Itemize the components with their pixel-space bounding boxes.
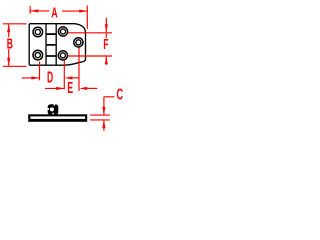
screw hole left-bottom outer bbox=[33, 50, 43, 60]
dimension C upper shaft bbox=[103, 97, 105, 115]
dimension E arrowhead left bbox=[56, 87, 64, 90]
svg-text:F: F bbox=[103, 36, 108, 53]
dimension B extension line top bbox=[3, 23, 27, 25]
screw hole left-bottom inner bbox=[35, 53, 40, 58]
svg-text:C: C bbox=[117, 86, 124, 103]
screw hole left-top outer bbox=[33, 27, 43, 37]
side view knuckle pin hole bbox=[50, 107, 54, 111]
side view knuckle top notch bbox=[54, 104, 56, 106]
dimension F extension line top bbox=[68, 32, 112, 34]
dimension A line right segment bbox=[62, 10, 87, 12]
side view knuckle left notch bbox=[47, 108, 49, 110]
dimension D right shaft bbox=[72, 77, 79, 79]
dimension C leader horizontal bbox=[104, 96, 114, 98]
dimension F extension line bottom bbox=[68, 55, 112, 57]
dimension D line left shaft bbox=[22, 77, 40, 79]
dimension F upper shaft bbox=[105, 18, 107, 32]
svg-text:E: E bbox=[67, 80, 73, 97]
barrel right edge line bbox=[55, 24, 57, 65]
screw hole right-bottom outer bbox=[58, 51, 67, 60]
dimension C extension line bottom bbox=[90, 119, 110, 121]
svg-text:D: D bbox=[47, 70, 53, 87]
dimension C extension line top bbox=[90, 114, 110, 116]
side view bar inner white split bbox=[30, 116, 85, 119]
dimension B line upper segment bbox=[8, 24, 10, 37]
knuckle joint line 2 bbox=[46, 44, 56, 46]
dimension D arrowhead right bbox=[64, 76, 72, 79]
knuckle joint line 3 bbox=[46, 55, 56, 57]
dimension C lower shaft bbox=[103, 120, 105, 131]
dimension F arrowhead bottom bbox=[105, 56, 108, 64]
screw hole right-top inner bbox=[60, 29, 65, 34]
svg-text:B: B bbox=[7, 36, 13, 53]
dimension D arrowhead left bbox=[31, 76, 39, 79]
side view knuckle body bbox=[48, 104, 59, 115]
dimension B arrowhead bottom bbox=[7, 58, 10, 66]
dimension B line lower segment bbox=[8, 49, 10, 66]
side view knuckle bottom notch bbox=[52, 113, 54, 115]
dimension A extension line left bbox=[29, 6, 31, 14]
dimension D extension line left (below left hole) bbox=[39, 62, 41, 81]
side view leaf bar bbox=[28, 114, 87, 122]
hinge right leaf outline (plan view) bbox=[46, 24, 86, 65]
dimension C arrowhead top bbox=[102, 107, 105, 115]
dimension A arrowhead left bbox=[30, 9, 38, 12]
dimension B arrowhead top bbox=[7, 24, 10, 32]
svg-text:A: A bbox=[51, 4, 57, 21]
dimension E line left segment bbox=[45, 87, 64, 89]
dimension A extension line right bbox=[86, 6, 88, 29]
screw hole right-top outer bbox=[58, 27, 67, 36]
knuckle joint line 1 bbox=[46, 33, 56, 35]
dimension F inner stub bbox=[105, 33, 107, 37]
shared extension line below right-bottom hole (D right / E left) bbox=[63, 61, 65, 90]
dimension E line right segment bbox=[87, 87, 97, 89]
dimension E extension line right (from middle hole) bbox=[78, 48, 80, 91]
screw hole right-bottom inner bbox=[60, 53, 65, 58]
dimension B extension line bottom bbox=[3, 65, 27, 67]
screw hole right-middle inner bbox=[76, 40, 81, 45]
screw hole right-middle outer bbox=[74, 38, 83, 47]
dimension F lower shaft bbox=[105, 56, 107, 65]
dimension C arrowhead bottom bbox=[102, 120, 105, 128]
dimension A arrowhead right bbox=[79, 10, 87, 13]
dimension F arrowhead top bbox=[105, 24, 108, 32]
hinge left leaf outline (plan view) bbox=[29, 24, 63, 65]
screw hole left-top inner bbox=[35, 29, 40, 34]
barrel left edge line bbox=[45, 24, 47, 65]
dimension E arrowhead right bbox=[79, 87, 87, 90]
dimension A line left segment bbox=[30, 10, 49, 12]
